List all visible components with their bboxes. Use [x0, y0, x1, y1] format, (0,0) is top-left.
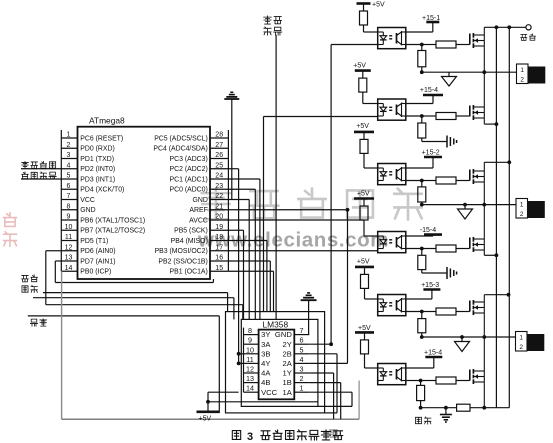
- svg-text:13: 13: [246, 374, 254, 383]
- U8 light arrows: [389, 371, 392, 373]
- wire current-limit vertical: [275, 35, 277, 320]
- U1 pin 28 stub: [210, 137, 228, 139]
- svg-text:AREF: AREF: [189, 207, 207, 214]
- svg-text:LM358: LM358: [263, 320, 289, 330]
- U1 pin 24 stub: [210, 178, 228, 180]
- wire R2a to opto anode: [362, 92, 364, 103]
- svg-text:23: 23: [215, 183, 223, 190]
- node dot G6: [463, 203, 467, 207]
- node dots on U2 pins 10/11: [237, 352, 241, 356]
- wire battery voltage row: [33, 297, 234, 299]
- svg-text:11: 11: [65, 234, 72, 241]
- svg-text:1: 1: [519, 335, 523, 342]
- resistor R2c pulldown ch2: [421, 116, 423, 123]
- wire +5V up to U2 pin14 (VCC): [207, 392, 209, 402]
- svg-text:+5V: +5V: [357, 259, 370, 266]
- U2 pin 4 stub: [294, 362, 309, 364]
- node emitter junction ch3: [420, 179, 424, 183]
- wire pin18 down: [228, 240, 267, 242]
- svg-text:-15-4: -15-4: [420, 227, 436, 234]
- wire opto6 collector to +15-4: [406, 367, 434, 369]
- svg-text:1: 1: [67, 132, 71, 139]
- svg-text:4A: 4A: [261, 369, 271, 378]
- svg-text:+5V: +5V: [353, 63, 366, 70]
- wire pin4 label underline: [21, 168, 61, 170]
- svg-text:2A: 2A: [283, 359, 293, 368]
- U1 right pin ladder rail: [227, 130, 229, 271]
- svg-text:7: 7: [300, 326, 304, 335]
- svg-text:26: 26: [215, 152, 223, 159]
- wire opto3 collector to +15-2: [406, 167, 433, 169]
- wire pin20 long (AVCC): [228, 219, 364, 221]
- node dot Q2 source rail: [495, 122, 499, 126]
- U2 pin 2 stub: [294, 382, 309, 384]
- wire 347 vertical to LM358 pin4: [347, 210, 349, 364]
- svg-text:+5V: +5V: [356, 123, 369, 130]
- U4 light arrows: [389, 106, 392, 108]
- wire opto4 collector to -15-4: [406, 235, 433, 237]
- resistor R3a (LED series): [363, 132, 365, 140]
- svg-text:3: 3: [300, 365, 304, 374]
- svg-text:PB5 (SCK): PB5 (SCK): [174, 228, 208, 235]
- U2 pin 13 stub: [244, 382, 259, 384]
- wire Q3 source / Q4 drain vertical: [483, 182, 485, 239]
- svg-text:ATmega8: ATmega8: [89, 116, 125, 126]
- U6 phototransistor: [396, 237, 398, 248]
- MOSFET Q1: [469, 34, 471, 45]
- label: negative (CJK): [415, 417, 421, 423]
- svg-text:4Y: 4Y: [261, 359, 270, 368]
- +5V supply for U2 (bar below): [197, 410, 220, 413]
- U1 pin 22 stub: [210, 199, 228, 201]
- node emitter junction ch4: [420, 247, 424, 251]
- svg-text:PD0 (RXD): PD0 (RXD): [80, 146, 114, 153]
- U1 pin 27 stub: [210, 147, 228, 149]
- terminal circle (forward): [526, 25, 531, 30]
- wire opto1 collector to +15-1: [406, 31, 433, 33]
- resistor R4b (gate series): [422, 248, 436, 250]
- ground G5 triangle on node A: [448, 72, 450, 76]
- svg-text:GND: GND: [192, 197, 207, 204]
- svg-text:GND: GND: [80, 207, 95, 214]
- wire aux row: [43, 292, 228, 294]
- svg-text:2: 2: [300, 374, 304, 383]
- connector J3 body (black): [527, 334, 544, 351]
- U1 pin 10 stub: [61, 229, 77, 231]
- wire Q1 source / Q2 drain vertical: [483, 46, 485, 107]
- optocoupler U7 body: [378, 295, 406, 316]
- ground G7 triangle on node C: [461, 337, 463, 342]
- wire U2 pin2 down: [309, 382, 340, 384]
- svg-text:3A: 3A: [261, 340, 271, 349]
- optocoupler U4 body: [378, 99, 406, 120]
- node dot ch1 pulldown to phase A: [420, 70, 424, 74]
- svg-text:1Y: 1Y: [283, 369, 292, 378]
- svg-text:5: 5: [67, 173, 71, 180]
- wire rail 1 (x496): [495, 27, 497, 407]
- svg-text:4: 4: [300, 355, 304, 364]
- wire Q6 source down: [483, 382, 485, 408]
- IC U2 LM358 body: [259, 330, 295, 400]
- wire Q3 drain tie: [483, 162, 485, 171]
- svg-text:PB6 (XTAL1/TOSC1): PB6 (XTAL1/TOSC1): [80, 217, 145, 224]
- svg-text:+15-1: +15-1: [422, 15, 440, 22]
- wire routing box B around U2: [226, 312, 325, 413]
- svg-text:1B: 1B: [283, 378, 292, 387]
- wire gate lead Q1: [456, 44, 470, 46]
- label: position signal (CJK) to pin5: [22, 172, 28, 179]
- ground G4 (hatched) ch4: [422, 272, 447, 274]
- U1 pin 11 stub: [61, 240, 77, 242]
- svg-text:PD3 (INT1): PD3 (INT1): [80, 176, 115, 183]
- U1 left pin ladder rail: [60, 130, 62, 271]
- optocoupler U3 body: [378, 28, 406, 49]
- wire pin5 label underline: [21, 178, 61, 180]
- U2 pin 1 stub: [294, 391, 309, 393]
- optocoupler U5 body: [378, 164, 406, 185]
- resistor R1c pulldown ch1: [421, 45, 423, 51]
- U7 light arrows: [389, 302, 392, 304]
- wire ch2 cathode from opto2: [264, 116, 378, 118]
- label: brake signal (CJK) to pin4: [22, 161, 29, 168]
- svg-text:AVCC: AVCC: [189, 217, 208, 224]
- svg-text:+15-3: +15-3: [421, 282, 439, 289]
- svg-text:14: 14: [246, 384, 254, 393]
- svg-text:6: 6: [300, 336, 304, 345]
- svg-text:14: 14: [65, 265, 73, 272]
- U4 phototransistor: [396, 105, 398, 116]
- svg-text:PC0 (ADC0): PC0 (ADC0): [170, 187, 208, 194]
- U1 pin 20 stub: [210, 219, 228, 221]
- wire +5V rail to right: [208, 401, 318, 403]
- resistor R5c pulldown ch5: [421, 312, 423, 319]
- U1 pin 8 stub: [61, 209, 77, 211]
- U1 pin 12 stub: [61, 250, 77, 252]
- resistor R5b (gate series): [422, 311, 436, 313]
- U8 phototransistor: [396, 369, 398, 380]
- wire pin22 down: [228, 199, 249, 201]
- resistor R2b (gate series): [422, 115, 436, 117]
- wire Q4 source to rail: [483, 250, 485, 255]
- svg-text:PB7 (XTAL2/TOSC2): PB7 (XTAL2/TOSC2): [80, 228, 145, 235]
- U1 pin 15 stub: [210, 270, 228, 272]
- wire pin14 bottom loop (gray): [61, 271, 63, 419]
- wire gate lead Q4: [456, 248, 470, 250]
- svg-text:PD7 (AIN1): PD7 (AIN1): [80, 258, 115, 265]
- wire opto2 emitter to gate node: [406, 115, 422, 117]
- svg-text:28: 28: [215, 132, 223, 139]
- node emitter junction ch1: [420, 43, 424, 47]
- resistor R5a (LED series): [364, 267, 366, 275]
- U6 LED: [382, 236, 384, 240]
- U1 pin 16 stub: [210, 260, 228, 262]
- U1 pin 7 stub: [61, 199, 77, 201]
- U2 pin 3 stub: [294, 372, 309, 374]
- node emitter junction ch5: [420, 310, 424, 314]
- wire Q5 source / Q6 drain vertical: [483, 313, 485, 371]
- resistor R6c pulldown ch6: [420, 381, 422, 386]
- U2 pin 10 stub: [244, 353, 259, 355]
- wire phase node A: [422, 71, 517, 73]
- svg-text:1A: 1A: [283, 388, 293, 397]
- svg-text:6: 6: [67, 183, 71, 190]
- wire pin19 down: [228, 229, 243, 231]
- ground G8 (earth) on bottom line: [445, 408, 447, 415]
- svg-text:10: 10: [246, 345, 254, 354]
- wire pin24 down: [228, 178, 260, 180]
- +5V supply bar ch2: [355, 69, 371, 72]
- +15 supply bar ch6 (+15-4): [425, 356, 442, 359]
- U1 pin 9 stub: [61, 219, 77, 221]
- U1 pin 23 stub: [210, 188, 228, 190]
- svg-text:9: 9: [67, 214, 71, 221]
- wire R4a to opto anode: [363, 220, 365, 236]
- svg-text:8: 8: [248, 326, 252, 335]
- MCU U1 ATmega8 body: [78, 127, 211, 279]
- svg-text:18: 18: [215, 234, 223, 241]
- svg-text:PD4 (XCK/T0): PD4 (XCK/T0): [80, 187, 124, 194]
- MOSFET Q3: [469, 170, 471, 181]
- svg-text:PB3 (MOSI/OC2): PB3 (MOSI/OC2): [155, 248, 208, 255]
- U1 pin 26 stub: [210, 158, 228, 160]
- svg-text:1: 1: [520, 202, 524, 209]
- svg-text:+15-4: +15-4: [420, 87, 438, 94]
- MOSFET Q5: [469, 301, 471, 312]
- resistor R1b (gate series): [422, 44, 436, 46]
- svg-text:21: 21: [215, 203, 223, 210]
- wire top rail to terminal: [484, 26, 526, 28]
- watermark: small gray logo block: [330, 430, 337, 437]
- node pin21/347 junction: [346, 208, 350, 212]
- U1 pin 4 stub: [61, 168, 77, 170]
- U2 pin 12 stub: [244, 372, 259, 374]
- wire U2 pin3 down: [309, 372, 333, 374]
- svg-text:2: 2: [519, 344, 523, 351]
- wire pin12 left loop: [46, 250, 62, 252]
- svg-text:1: 1: [300, 384, 304, 393]
- svg-text:4: 4: [67, 162, 71, 169]
- MOSFET Q6: [469, 370, 471, 381]
- U1 pin 3 stub: [61, 158, 77, 160]
- wire bottom negative line: [421, 407, 457, 409]
- svg-text:2B: 2B: [283, 349, 292, 358]
- svg-text:2Y: 2Y: [283, 340, 292, 349]
- U5 LED: [382, 168, 384, 172]
- wire opto4 emitter to gate node: [406, 248, 422, 250]
- svg-text:22: 22: [215, 193, 223, 200]
- resistor R6b (gate series): [421, 380, 436, 382]
- +5V supply bar ch5: [355, 266, 374, 269]
- U1 pin 6 stub: [61, 188, 77, 190]
- svg-text:20: 20: [215, 214, 223, 221]
- node dot U2 pin6: [329, 342, 333, 346]
- svg-text:9: 9: [248, 336, 252, 345]
- svg-text:2: 2: [520, 211, 524, 218]
- wire pin25 to LM358 pins 10/11 column: [228, 168, 238, 170]
- wire pin17 to opto4 cathode: [228, 250, 377, 252]
- svg-text:19: 19: [215, 224, 223, 231]
- svg-text:3: 3: [247, 431, 253, 443]
- svg-text:VCC: VCC: [261, 388, 278, 397]
- U2 pin 11 stub: [244, 362, 259, 364]
- U2 pin 6 stub: [294, 343, 309, 345]
- svg-text:PD5 (T1): PD5 (T1): [80, 238, 108, 245]
- label: forward rotation (CJK): [521, 34, 527, 40]
- svg-text:2: 2: [520, 77, 524, 84]
- svg-text:16: 16: [215, 255, 223, 262]
- svg-text:3Y: 3Y: [261, 330, 270, 339]
- caption: figure 3 speed control system schematic (CJK): [232, 431, 240, 440]
- svg-text:+5V: +5V: [358, 325, 371, 332]
- svg-text:PC5 (ADC5/SCL): PC5 (ADC5/SCL): [154, 135, 208, 142]
- resistor R13 (series, bottom line): [457, 404, 470, 411]
- U2 pin 8 stub: [244, 334, 259, 336]
- U2 pin 9 stub: [244, 343, 259, 345]
- svg-text:+15-4: +15-4: [424, 350, 442, 357]
- wire R3a to opto anode: [363, 153, 365, 168]
- optocoupler U8 body: [378, 364, 406, 385]
- +5V supply bar ch6: [355, 331, 374, 334]
- U2 pin 14 stub: [244, 391, 259, 393]
- wire U2 pin5 down: [309, 353, 337, 355]
- connector J3 pin box: [516, 332, 528, 352]
- svg-text:10: 10: [65, 224, 73, 231]
- wire opto3 emitter to gate node: [406, 180, 422, 182]
- svg-text:PB0 (ICP): PB0 (ICP): [80, 269, 111, 276]
- +15 supply bar ch5 (+15-3): [423, 288, 440, 291]
- U1 pin 25 stub: [210, 168, 228, 170]
- node dots on top rail: [495, 25, 499, 29]
- wire Q5 drain tie: [483, 295, 485, 302]
- MOSFET Q2: [469, 106, 471, 117]
- node emitter junction ch2: [420, 114, 424, 118]
- svg-text:27: 27: [215, 142, 223, 149]
- wire ground G1 stem to pin22 row: [231, 99, 233, 200]
- svg-text:1: 1: [520, 67, 524, 74]
- U1 pin 13 stub: [61, 260, 77, 262]
- wire opto2 collector to +15-4: [406, 103, 433, 105]
- connector J2 body (black): [528, 201, 545, 218]
- +15 supply bar ch2 (+15-4): [423, 94, 443, 97]
- resistor R3c pulldown ch3: [421, 181, 423, 187]
- +5V supply bar ch3: [354, 131, 374, 134]
- svg-text:VCC: VCC: [80, 197, 95, 204]
- ground G6 triangle on node B: [464, 205, 466, 209]
- label: battery voltage (CJK 2x2): [22, 275, 29, 281]
- U8 LED: [382, 368, 384, 372]
- svg-text:8: 8: [67, 203, 71, 210]
- wire pin16 down: [228, 260, 270, 262]
- U3 LED: [382, 32, 384, 36]
- svg-text:PD6 (AIN0): PD6 (AIN0): [80, 248, 115, 255]
- connector J2 pin box: [516, 199, 528, 219]
- svg-text:13: 13: [65, 255, 73, 262]
- U1 pin 5 stub: [61, 178, 77, 180]
- svg-text:PB2 (SS/OC1B): PB2 (SS/OC1B): [158, 258, 207, 265]
- node +5V junction: [206, 400, 210, 404]
- wire Q1 drain up to top rail: [483, 27, 485, 35]
- node dot ch3 pulldown phase B: [420, 203, 424, 207]
- U5 phototransistor: [396, 169, 398, 180]
- node dot ch5 pulldown phase C: [420, 335, 424, 339]
- wire Q2 source to rail: [483, 118, 485, 124]
- wire pin23 down: [228, 188, 255, 190]
- node dot Q6 bottom: [482, 406, 486, 410]
- wire phase node B: [422, 204, 517, 206]
- wire pin15 down: [228, 270, 273, 272]
- wire bottom line right: [470, 407, 509, 409]
- ground G1 (inverted bars): [230, 91, 233, 93]
- +15 supply bar ch1 (+15-1): [426, 21, 439, 24]
- node dot A / MOSFET tie: [482, 70, 486, 74]
- U3 light arrows: [389, 35, 392, 37]
- +5V supply bar ch4: [354, 197, 374, 200]
- node emitter junction ch6: [419, 379, 423, 383]
- U1 pin 1 stub: [61, 137, 77, 139]
- resistor R3b (gate series): [422, 180, 436, 182]
- +15 supply bar ch4 (-15-4): [424, 233, 442, 236]
- watermark: pink stamp fragment left edge: [4, 213, 17, 246]
- svg-text:PC6 (RESET): PC6 (RESET): [80, 135, 123, 142]
- node dot ground stem: [444, 406, 448, 410]
- svg-text:7: 7: [67, 193, 71, 200]
- U1 pin 21 stub: [210, 209, 228, 211]
- node dot Q4 source rail: [495, 253, 499, 257]
- U3 phototransistor: [396, 33, 398, 44]
- ground G3 (hatched) ch2: [422, 141, 447, 143]
- svg-text:15: 15: [215, 265, 223, 272]
- wire U2 pin1 right: [309, 391, 352, 393]
- svg-text:3: 3: [67, 152, 71, 159]
- +15 supply bar ch3 (+15-2): [424, 156, 442, 159]
- svg-text:17: 17: [215, 244, 223, 251]
- U1 pin 14 stub: [61, 270, 77, 272]
- svg-text:PC2 (ADC2): PC2 (ADC2): [170, 166, 208, 173]
- wire U2 pin6 to opto1 cathode (long): [309, 343, 331, 345]
- wire opto5 emitter to gate node: [406, 311, 422, 313]
- U4 LED: [382, 104, 384, 108]
- svg-text:3B: 3B: [261, 349, 270, 358]
- wire gate lead Q3: [456, 180, 470, 182]
- resistor R4a (LED series): [363, 199, 365, 207]
- wire R6a to opto anode: [364, 354, 366, 368]
- wire routing box A around U2: [241, 319, 318, 406]
- node dot C tie: [482, 335, 486, 339]
- wire opto5 collector to +15-3: [406, 298, 432, 300]
- wire opto6 emitter to gate node: [406, 380, 421, 382]
- node dot pulldown6 bottom: [419, 406, 423, 410]
- svg-text:2: 2: [67, 142, 71, 149]
- wire pin13 left loop: [55, 260, 61, 262]
- resistor R2a (LED series): [362, 71, 364, 79]
- svg-text:PB1 (OC1A): PB1 (OC1A): [170, 269, 208, 276]
- wire opto1 emitter to gate node: [406, 44, 422, 46]
- svg-text:PD1 (TXD): PD1 (TXD): [80, 156, 114, 163]
- svg-text:+5V: +5V: [357, 191, 370, 198]
- wire rail 2 (x509): [508, 27, 510, 407]
- U1 pin 19 stub: [210, 229, 228, 231]
- node dot Q3 drain rail: [507, 160, 511, 164]
- MOSFET Q4: [469, 238, 471, 249]
- svg-text:12: 12: [246, 365, 254, 374]
- wire R1a to opto anode: [363, 25, 365, 32]
- svg-text:PC1 (ADC1): PC1 (ADC1): [170, 176, 208, 183]
- ground G2 above U2 pin7: [307, 292, 310, 294]
- svg-text:4B: 4B: [261, 378, 270, 387]
- wire R5a to opto anode: [364, 288, 366, 299]
- U6 light arrows: [389, 239, 392, 241]
- U5 light arrows: [389, 171, 392, 173]
